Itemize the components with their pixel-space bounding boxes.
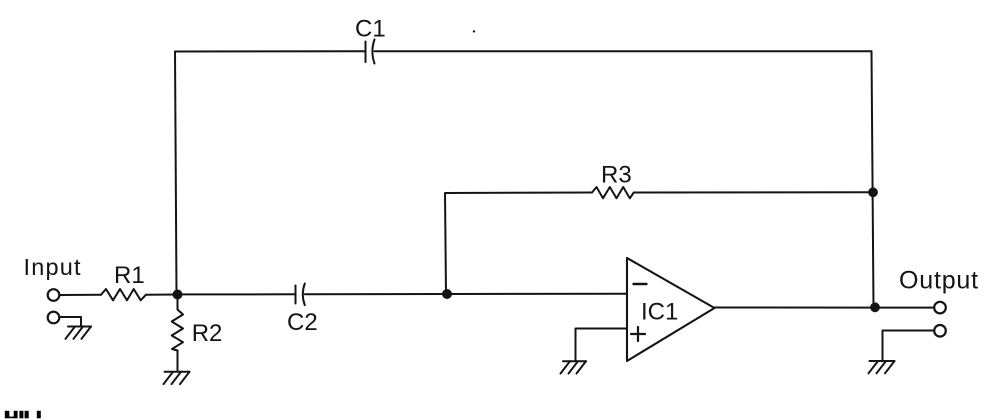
wire: input ground stub [60, 317, 82, 327]
wire: non-inverting input stub [576, 329, 628, 362]
resistor R2 [172, 295, 183, 372]
wire: output ground stub [883, 331, 935, 362]
svg-text:R2: R2 [192, 320, 223, 347]
print artifact marks bottom-left [5, 411, 41, 419]
node C (junction dot on right leg) [868, 187, 878, 197]
wire: R3 to node C [634, 191, 872, 193]
wire: top feedback run, left of C1 [175, 50, 366, 52]
capacitor C1 [366, 40, 375, 64]
ground (output) [869, 361, 895, 373]
wire: right vertical feedback leg [872, 51, 874, 307]
ground (op-amp + input) [561, 361, 587, 373]
wire: input terminal to R1 [60, 294, 101, 296]
input terminal (signal) [48, 289, 60, 301]
wire: node A up the left feedback leg [175, 52, 177, 295]
svg-text:C2: C2 [287, 309, 318, 336]
svg-text:IC1: IC1 [641, 299, 678, 326]
output terminal (ground side) [934, 325, 946, 337]
output terminal (signal) [934, 302, 946, 314]
resistor R1 [101, 289, 146, 300]
wire: C2 to node B [305, 293, 447, 295]
input terminal (ground side) [48, 312, 60, 324]
speck artifact [473, 30, 475, 32]
svg-text:Input: Input [24, 254, 82, 280]
resistor R3 [592, 187, 634, 198]
ground (input) [66, 327, 92, 339]
node A (junction dot) [173, 290, 183, 300]
wire: op-amp output to output terminal [715, 307, 935, 309]
svg-text:R3: R3 [601, 162, 632, 189]
op-amp plus pin mark [631, 327, 645, 341]
wire: R1 to node A [146, 294, 178, 296]
node D (output junction dot) [870, 302, 880, 312]
op-amp minus pin mark [634, 283, 647, 285]
capacitor C2 [296, 284, 305, 306]
op-amp IC1 [627, 258, 715, 361]
svg-text:C1: C1 [355, 16, 386, 43]
node B (junction dot) [442, 289, 452, 299]
svg-text:Output: Output [899, 267, 979, 295]
wire: node B up to R3 branch [445, 193, 592, 295]
wire: top feedback run, right of C1 [375, 50, 872, 52]
wire: node B to inverting input [447, 293, 627, 295]
svg-text:R1: R1 [114, 262, 145, 289]
wire: node A to C2 [178, 293, 296, 295]
ground (R2) [164, 372, 190, 384]
